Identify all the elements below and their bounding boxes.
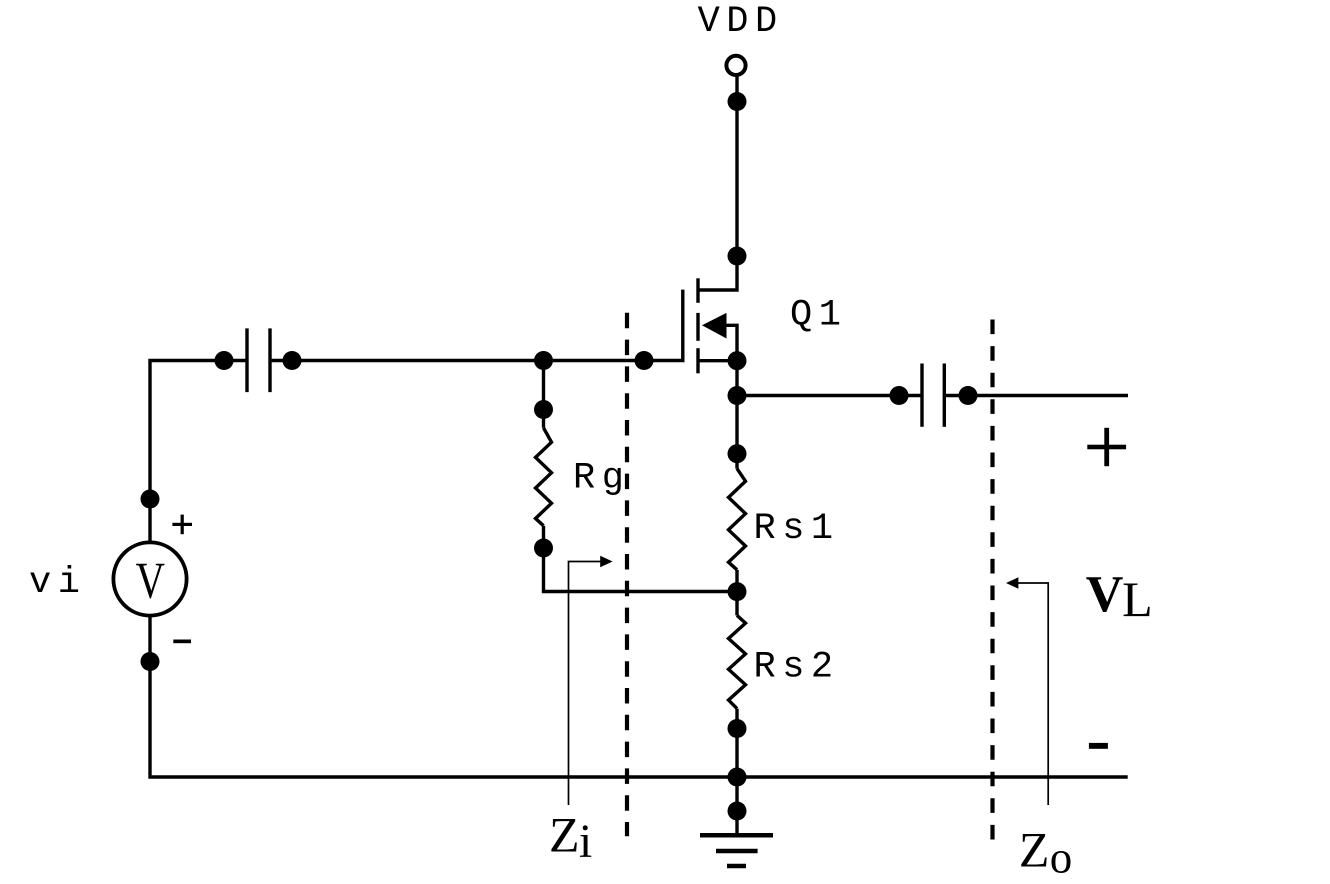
net Zo measurement arrow xyxy=(1006,577,1048,805)
svg-text:o: o xyxy=(1050,833,1073,883)
ground symbol xyxy=(700,835,773,866)
svg-text:Rs2: Rs2 xyxy=(754,647,840,689)
resistor Rs2 zigzag xyxy=(729,615,746,708)
node: Rs1/Rs2 midpoint junction dot xyxy=(728,582,747,601)
transistor Q1 channel bar bottom segment xyxy=(696,348,699,373)
wire: bottom rail with left vertical from vi xyxy=(150,616,1128,777)
svg-text:V: V xyxy=(1086,566,1124,623)
resistor Rg zigzag xyxy=(536,428,552,526)
wire: Rs2 bottom lead down to ground xyxy=(735,709,738,836)
wire: input horizontal from C1 to gate, then gate lead up xyxy=(270,290,683,361)
node: Q1 source junction dot xyxy=(728,351,747,370)
wire: Q1 body lead to source node xyxy=(727,325,738,360)
wire: trunk from source node down to Rs1 xyxy=(735,361,738,469)
wire: input top horizontal left of C1 and left vertical down to source vi xyxy=(150,361,247,543)
resistor Rg branch: top lead xyxy=(542,361,545,428)
svg-text:VDD: VDD xyxy=(698,1,784,43)
svg-text:i: i xyxy=(579,815,592,868)
net Zi measurement arrow xyxy=(569,556,613,805)
node: output node junction dot xyxy=(728,386,747,405)
svg-text:Q1: Q1 xyxy=(790,295,847,337)
node: junction dot below VDD terminal xyxy=(728,92,747,111)
wire: output horizontal right of C2 xyxy=(944,394,1128,397)
node: junction dot left of C2 xyxy=(890,386,909,405)
capacitor C1 left plate xyxy=(245,328,248,392)
transistor Q1 channel bar top segment xyxy=(696,278,699,303)
node: junction dot below vi xyxy=(141,652,160,671)
svg-text:Z: Z xyxy=(1019,822,1050,878)
wire: Rg bottom lead down and right to Rs1/Rs2 midpoint xyxy=(544,526,738,592)
svg-text:L: L xyxy=(1122,571,1153,627)
node: junction dot above ground symbol xyxy=(728,802,747,821)
wire: Rs1 bottom lead xyxy=(735,570,738,616)
output minus sign xyxy=(1089,743,1108,749)
wire: Q1 source lead xyxy=(698,359,737,362)
svg-text:Rg: Rg xyxy=(573,457,630,499)
capacitor C2 left plate xyxy=(920,364,923,427)
node: Rg bottom junction dot xyxy=(534,539,553,558)
transistor Q1 body arrow xyxy=(702,313,727,339)
svg-text:Z: Z xyxy=(549,806,580,862)
voltage source vi circle xyxy=(113,542,186,615)
svg-text:V: V xyxy=(136,552,166,610)
node: junction dot at Rg top tap on input wire xyxy=(534,351,553,370)
svg-text:Rs1: Rs1 xyxy=(754,508,840,550)
capacitor C1 right plate xyxy=(268,328,271,392)
vi minus sign xyxy=(173,640,191,644)
resistor Rs1 zigzag xyxy=(729,469,746,570)
node: junction dot right of C1 xyxy=(283,351,302,370)
node: junction dot above vi xyxy=(141,490,160,509)
node: junction dot left of C1 xyxy=(215,351,234,370)
node: Rs1 top junction dot xyxy=(728,444,747,463)
node: Rg top junction dot xyxy=(534,400,553,419)
node: bottom rail junction dot xyxy=(728,768,747,787)
node: junction dot above Q1 drain xyxy=(728,247,747,266)
vi plus sign xyxy=(172,515,192,535)
wire: output horizontal from output node to C2 xyxy=(737,394,922,397)
wire: VDD trunk down to drain lead of Q1 xyxy=(698,75,737,290)
node: Rs2 bottom junction dot xyxy=(728,719,747,738)
transistor Q1 channel bar middle segment xyxy=(696,313,699,341)
node: junction dot on gate wire xyxy=(635,351,654,370)
capacitor C2 right plate xyxy=(943,364,946,427)
output plus sign xyxy=(1087,428,1126,466)
node: junction dot right of C2 xyxy=(959,386,978,405)
net Zo dashed boundary line xyxy=(990,320,994,841)
svg-text:vi: vi xyxy=(29,562,86,604)
VDD terminal circle xyxy=(726,56,745,75)
net Zi dashed boundary line xyxy=(625,313,629,837)
